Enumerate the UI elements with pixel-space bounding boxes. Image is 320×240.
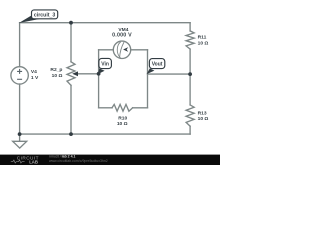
- svg-text:LAB: LAB: [29, 159, 38, 164]
- wire right rail between R11 and junction: [189, 49, 191, 74]
- node label box Vout: [149, 59, 164, 69]
- svg-text:R10: R10: [118, 116, 127, 122]
- potentiometer wiper arrowhead: [72, 71, 78, 76]
- svg-text:10 Ω: 10 Ω: [52, 73, 63, 79]
- label tail Vin: [98, 68, 105, 74]
- svg-text:V4: V4: [31, 69, 37, 75]
- wire voltmeter right lead: [131, 49, 148, 51]
- voltmeter needle arrowhead: [123, 47, 128, 52]
- svg-text:Vout: Vout: [152, 62, 163, 68]
- wire Vin vertical left of loop: [98, 50, 100, 108]
- svg-text:Vin: Vin: [101, 62, 109, 68]
- wire right rail between junction and R13: [189, 74, 191, 105]
- CircuitLab logo: [11, 155, 39, 164]
- svg-text:R13: R13: [198, 110, 207, 116]
- voltage source V4 body: [11, 67, 28, 84]
- voltmeter VM4 body: [113, 41, 130, 58]
- ground stem: [19, 134, 21, 141]
- svg-text:10 Ω: 10 Ω: [198, 116, 209, 122]
- V4 minus sign: [17, 78, 22, 80]
- junction dot node Vin: [97, 72, 101, 76]
- svg-text:R11: R11: [198, 35, 207, 41]
- wire Vout to right rail: [148, 73, 191, 75]
- resistor R11 zigzag: [186, 31, 194, 49]
- wire left rail bottom (V4 to bottom rail): [19, 84, 21, 134]
- svg-text:1 V: 1 V: [31, 75, 39, 81]
- wire R2_p branch bottom: [70, 85, 72, 134]
- ground triangle: [13, 141, 27, 148]
- wire left rail top (V4 to top rail): [19, 23, 21, 67]
- node label box Vin: [99, 58, 112, 68]
- label tail circuit_3: [19, 15, 40, 23]
- wire top rail: [20, 22, 191, 24]
- svg-text:0.000 V: 0.000 V: [112, 33, 132, 39]
- resistor R10 zigzag: [112, 104, 133, 111]
- wire right rail top segment: [189, 23, 191, 31]
- wire bottom branch left (to R10): [99, 107, 112, 109]
- svg-text:R2_p: R2_p: [50, 67, 62, 73]
- resistor R13 zigzag: [186, 105, 194, 126]
- junction dot bottom left (ground): [18, 132, 22, 136]
- node label box circuit_3: [32, 10, 58, 19]
- svg-text:circuit_3: circuit_3: [34, 12, 55, 18]
- svg-text:10 Ω: 10 Ω: [117, 121, 128, 127]
- junction dot node Vout at right rail: [188, 72, 192, 76]
- label tail Vout: [147, 68, 155, 74]
- footer bar: [0, 155, 220, 165]
- wire R2_p branch top: [70, 23, 72, 62]
- svg-text:10 Ω: 10 Ω: [198, 41, 209, 47]
- junction dot top of R2_p branch: [69, 21, 73, 25]
- wire voltmeter left lead: [99, 49, 114, 51]
- svg-text:www.circuitlab.com/c/9pre5udtu: www.circuitlab.com/c/9pre5udtux3hn2: [49, 159, 108, 163]
- wire right rail bottom segment: [189, 126, 191, 134]
- wire bottom branch right (R10 to Vout vertical): [133, 107, 148, 109]
- resistor R2_p zigzag: [67, 62, 75, 86]
- V4 plus sign: [17, 69, 22, 74]
- wire wiper to node Vin: [76, 73, 98, 75]
- svg-text:nmu3t / lab 2 4.1: nmu3t / lab 2 4.1: [49, 154, 76, 158]
- wire Vout vertical right of loop: [147, 50, 149, 108]
- wire bottom rail: [20, 133, 191, 135]
- junction dot bottom of R2_p branch: [69, 132, 73, 136]
